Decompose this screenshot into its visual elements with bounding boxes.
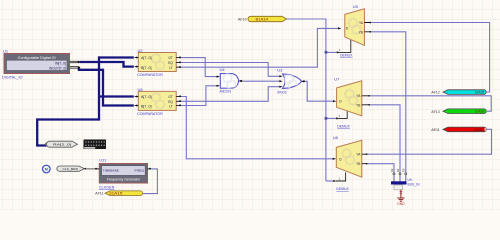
svg-text:U8: U8 [333,135,339,140]
svg-text:DIGITAL_IO: DIGITAL_IO [2,75,23,80]
svg-text:BUS_IN: BUS_IN [408,182,421,186]
svg-text:OR3OS: OR3OS [277,90,287,95]
svg-text:U3: U3 [277,67,283,72]
svg-text:A[7..0]: A[7..0] [141,56,152,60]
svg-text:CLKGEN: CLKGEN [99,184,115,189]
svg-text:Configurable Digital IO: Configurable Digital IO [18,56,56,60]
svg-text:B1A14: B1A14 [256,18,269,22]
svg-text:M: M [45,168,48,172]
svg-text:U7: U7 [334,77,340,82]
svg-text:AE11: AE11 [431,128,440,132]
svg-text:AND2OS: AND2OS [220,88,232,93]
svg-text:CLK_BRD: CLK_BRD [63,167,79,171]
svg-text:A[7..0]: A[7..0] [141,95,152,99]
svg-text:D1: D1 [396,168,400,172]
svg-text:AF10: AF10 [238,18,247,22]
svg-text:DEMUX: DEMUX [340,53,353,58]
svg-text:U9: U9 [408,178,412,182]
svg-text:31A18: 31A18 [475,91,484,95]
svg-text:DEMUX: DEMUX [336,186,349,191]
svg-text:Frequency Generator: Frequency Generator [107,178,141,182]
svg-text:AF13: AF13 [431,110,440,114]
svg-text:31A1B: 31A1B [474,128,484,132]
svg-text:YB: YB [359,30,363,34]
svg-text:D2: D2 [390,168,394,172]
svg-text:IN[7..0]: IN[7..0] [55,62,66,66]
svg-text:GT: GT [168,95,172,99]
svg-text:31A28: 31A28 [475,110,484,114]
svg-text:B[7..0]: B[7..0] [141,66,152,70]
svg-text:U4: U4 [220,67,226,72]
svg-text:LT: LT [169,105,173,109]
svg-text:INOUT[7..0]: INOUT[7..0] [49,67,66,71]
svg-text:U1: U1 [3,49,9,54]
svg-text:B[7..0]: B[7..0] [141,105,152,109]
svg-text:AF11: AF11 [95,192,103,196]
svg-text:COMPARATOR: COMPARATOR [137,111,163,116]
svg-text:YB: YB [356,103,360,107]
svg-text:DEMUX: DEMUX [337,123,350,128]
svg-text:EQ: EQ [168,61,173,65]
svg-text:31A15: 31A15 [109,192,123,196]
svg-text:AF12: AF12 [431,91,440,95]
svg-text:D0: D0 [402,168,406,172]
svg-text:YB: YB [356,162,360,166]
svg-text:EQ: EQ [168,100,173,104]
svg-text:GND: GND [397,202,405,206]
svg-text:U11: U11 [99,158,107,163]
svg-text:TIMEBASE: TIMEBASE [103,168,119,172]
svg-text:GT: GT [168,56,172,60]
svg-text:RA[3..0]: RA[3..0] [53,143,71,147]
svg-text:COMPARATOR: COMPARATOR [137,72,163,77]
svg-text:LT: LT [169,66,173,70]
svg-text:U5: U5 [353,4,359,9]
svg-text:FREQ: FREQ [135,168,145,172]
